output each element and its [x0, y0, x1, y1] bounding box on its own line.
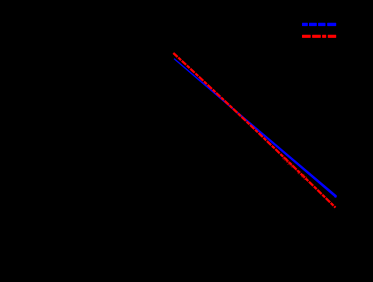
blue line end cap [334, 195, 337, 198]
legend entry 1: blue label text [302, 23, 336, 26]
blue data line [174, 58, 337, 197]
legend entry 2: red label text [302, 35, 336, 38]
red dashed fit line [173, 53, 335, 208]
